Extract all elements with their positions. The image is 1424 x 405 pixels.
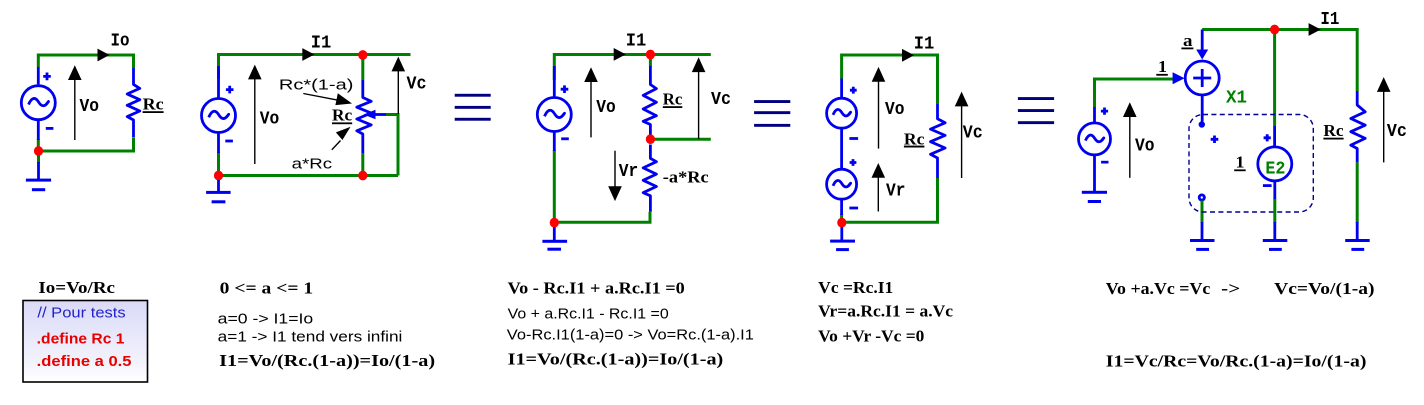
resistor Rc C4 (931, 104, 946, 178)
svg-text:I1: I1 (626, 31, 647, 51)
current arrow Io (98, 49, 110, 62)
svg-text:Vo: Vo (596, 98, 616, 118)
voltage source V1 C3 (537, 66, 571, 151)
ground C5 left (1190, 222, 1215, 251)
voltage source V1 C5 (1079, 107, 1111, 192)
wire resistor top stub C3 (649, 56, 652, 67)
svg-text:1: 1 (1236, 153, 1245, 172)
voltage arrow Vc C3 (692, 57, 706, 139)
svg-text:a: a (1183, 31, 1193, 50)
current arrow I1 C5 (1309, 23, 1321, 36)
svg-text:I1=Vo/(Rc.(1-a))=Io/(1-a): I1=Vo/(Rc.(1-a))=Io/(1-a) (219, 351, 435, 370)
label Rc underlined C2 (332, 106, 353, 125)
plus above E2 (1264, 134, 1271, 141)
svg-text:Rc*(1-a): Rc*(1-a) (279, 78, 354, 94)
resistor Rc C5 (1351, 91, 1365, 162)
wire below E2 (1273, 199, 1276, 223)
wire potentiometer top C2 (361, 56, 364, 80)
ground C1 (26, 155, 51, 191)
svg-text:Vc =Rc.I1: Vc =Rc.I1 (818, 278, 893, 297)
ground C4 (830, 227, 855, 251)
plus label at terminal (1211, 136, 1219, 144)
dashed behavioral box (1189, 115, 1313, 213)
svg-text:X1: X1 (1226, 89, 1247, 109)
input arrow 1 into X1 (1173, 72, 1185, 84)
wire bottom rail C1 (38, 138, 133, 151)
svg-text:Vr: Vr (886, 181, 906, 201)
svg-text:Vo +Vr -Vc =0: Vo +Vr -Vc =0 (818, 327, 924, 346)
X1 output pin to terminal (1201, 95, 1204, 122)
svg-text:Vo-Rc.I1(1-a)=0 -> Vo=Rc.(1-a): Vo-Rc.I1(1-a)=0 -> Vo=Rc.(1-a).I1 (507, 328, 754, 344)
svg-text:Vc=Vo/(1-a): Vc=Vo/(1-a) (1274, 279, 1374, 298)
resistor Rc (127, 68, 140, 138)
wire bottom rail C2 (219, 152, 399, 176)
svg-text:a=1 -> I1 tend vers infini: a=1 -> I1 tend vers infini (218, 330, 403, 346)
svg-text:Vc: Vc (963, 123, 983, 143)
voltage arrow Vo C4 (872, 67, 886, 149)
wire below Rc C5 (1356, 162, 1359, 223)
wire top rail C4 (842, 55, 938, 104)
svg-text:Vr=a.Rc.I1 = a.Vc: Vr=a.Rc.I1 = a.Vc (818, 302, 953, 321)
equivalence symbol 2 (754, 100, 790, 127)
current arrow I1 C2 (302, 48, 314, 61)
svg-text:I1=Vo/(Rc.(1-a))=Io/(1-a): I1=Vo/(Rc.(1-a))=Io/(1-a) (508, 350, 724, 369)
svg-text:Vo: Vo (885, 100, 905, 120)
summer X1 (1185, 61, 1219, 95)
voltage arrow Vo C3 (584, 67, 598, 137)
label a underlined (1181, 31, 1193, 50)
svg-text:Vo: Vo (1135, 137, 1155, 157)
wire E2 top feed C5 (1273, 31, 1276, 126)
svg-text:Rc: Rc (904, 129, 925, 148)
svg-text:a=0 -> I1=Io: a=0 -> I1=Io (218, 312, 314, 328)
wire wiper to right rail C2 (386, 115, 398, 176)
svg-text:a*Rc: a*Rc (292, 156, 333, 172)
terminal open circle (E block -in) (1199, 195, 1204, 200)
voltage arrow Vo C2 (248, 65, 262, 164)
ground C5 source (1082, 191, 1107, 203)
wire below open terminal (1201, 201, 1204, 224)
node dot C4 bottom (837, 218, 846, 228)
svg-text:Vc: Vc (1387, 122, 1407, 142)
controlled source E2 (1258, 126, 1292, 200)
svg-text:Io=Vo/Rc: Io=Vo/Rc (38, 278, 115, 297)
svg-text:Io: Io (111, 32, 130, 52)
equivalence symbol 3 (1018, 97, 1054, 124)
svg-text:Rc: Rc (143, 94, 164, 113)
voltage arrow Vr C4 (872, 163, 886, 212)
ground C5 right (1345, 222, 1370, 251)
svg-text:Vc: Vc (711, 90, 731, 110)
terminal dot (E block +in) (1199, 121, 1205, 127)
voltage source V2 C4 (827, 159, 859, 215)
svg-text:1: 1 (1158, 57, 1167, 76)
ground C3 (542, 227, 567, 251)
annotation arrow to pot bottom (332, 127, 351, 150)
potentiometer Rc C2 (357, 80, 386, 153)
svg-text:Vr: Vr (619, 162, 639, 182)
wire source to summer input C5 (1095, 79, 1174, 107)
svg-text:Vc: Vc (407, 75, 427, 95)
svg-text:I1: I1 (914, 35, 935, 55)
wire top rail C2 (219, 55, 411, 80)
svg-text:Vo: Vo (80, 97, 100, 117)
ground C2 (206, 180, 231, 203)
wire between sources C4 (840, 128, 843, 169)
ground C5 mid (1263, 222, 1288, 251)
svg-text:Vo + a.Rc.I1 - Rc.I1 =0: Vo + a.Rc.I1 - Rc.I1 =0 (508, 307, 669, 323)
voltage source V1 (21, 67, 55, 140)
voltage arrow Vo C5 (1123, 102, 1137, 178)
annotation arrow to pot top (303, 93, 352, 105)
svg-text:I1: I1 (311, 33, 332, 53)
svg-text:->: -> (1221, 279, 1240, 298)
svg-text:0 <= a <= 1: 0 <= a <= 1 (220, 279, 314, 298)
svg-text:I1=Vc/Rc=Vo/Rc.(1-a)=Io/(1-a): I1=Vc/Rc=Vo/Rc.(1-a)=Io/(1-a) (1106, 352, 1367, 371)
voltage arrow Vr C3 (608, 151, 622, 201)
svg-text:Rc: Rc (332, 106, 353, 125)
wire bottom rail C4 (842, 178, 938, 222)
voltage arrow Vc C4 (955, 92, 969, 178)
label Rc underlined C5 (1323, 121, 1344, 140)
wire potentiometer bottom C2 (361, 153, 364, 176)
svg-text:Vo - Rc.I1 + a.Rc.I1 =0: Vo - Rc.I1 + a.Rc.I1 =0 (508, 279, 685, 298)
voltage source V1 C2 (202, 66, 236, 153)
svg-text:I1: I1 (1320, 10, 1339, 30)
node dot C3 bottom (550, 218, 559, 228)
feedback arrow a into X1 (1196, 30, 1208, 60)
node dot C5 top (1270, 25, 1279, 35)
svg-text:Vo +a.Vc =Vc: Vo +a.Vc =Vc (1106, 279, 1211, 298)
svg-text:Rc: Rc (1323, 121, 1344, 140)
wire top rail C3 (554, 55, 711, 81)
label 1 underlined (input) (1156, 57, 1168, 76)
node dot C2 top (358, 50, 367, 60)
current arrow I1 C4 (902, 49, 914, 62)
node dot C2 bottom mid (358, 171, 367, 181)
resistor -a*Rc C3 (643, 145, 656, 212)
minus below E2 (1263, 184, 1272, 187)
label Rc underlined C4 (904, 129, 925, 148)
wire mid rail C3 (650, 138, 710, 141)
current arrow I1 C3 (614, 48, 626, 61)
node dot C3 mid (646, 134, 655, 144)
directive box (23, 301, 148, 383)
wire bottom rail C3 (554, 150, 650, 222)
voltage source V1 C4 (827, 79, 859, 140)
svg-text:.define Rc 1: .define Rc 1 (37, 330, 125, 347)
wire top rail C5 (1202, 30, 1357, 92)
node dot C2 bottom left (214, 171, 223, 181)
equivalence symbol 1 (455, 94, 491, 121)
svg-text:Vo: Vo (260, 109, 280, 129)
svg-text:Rc: Rc (663, 89, 683, 108)
node dot C3 top (646, 50, 655, 60)
resistor Rc C3 (643, 66, 656, 135)
node dot N1 (34, 146, 43, 156)
voltage arrow Vo (68, 65, 82, 140)
voltage arrow Vc C5 (1377, 77, 1391, 162)
label 1 underlined (E2 gain) (1234, 153, 1246, 172)
label Rc underlined (143, 94, 164, 113)
svg-text:E2: E2 (1265, 160, 1285, 180)
svg-text:.define a 0.5: .define a 0.5 (37, 353, 132, 370)
wire top rail C1 (38, 55, 133, 69)
svg-text:// Pour tests: // Pour tests (37, 304, 125, 321)
voltage arrow Vc C2 (392, 57, 406, 114)
label Rc underlined C3 (663, 89, 683, 108)
svg-text:-a*Rc: -a*Rc (663, 168, 709, 187)
